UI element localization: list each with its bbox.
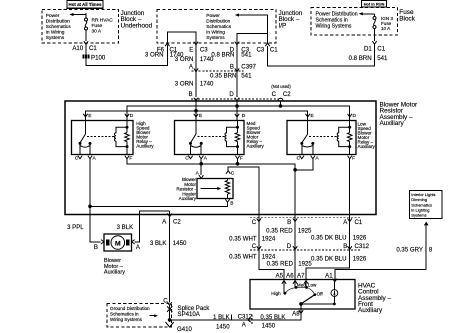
junction block underhood (dashed box): [42, 10, 119, 44]
svg-text:C2: C2: [173, 219, 181, 226]
wire label 0.35 GRY 8: [396, 246, 433, 253]
pin C relay K2: [185, 156, 192, 162]
svg-text:E: E: [189, 46, 193, 53]
svg-text:Distribution: Distribution: [46, 19, 70, 25]
svg-text:30 A: 30 A: [92, 28, 102, 34]
svg-text:0.8 BRN: 0.8 BRN: [211, 52, 234, 59]
svg-text:C1: C1: [270, 46, 278, 53]
svg-text:B: B: [343, 243, 347, 250]
svg-text:RR HVAC: RR HVAC: [92, 18, 114, 24]
svg-text:0.35 WHT: 0.35 WHT: [229, 254, 257, 261]
svg-text:Auxiliary: Auxiliary: [104, 270, 125, 276]
svg-text:M: M: [115, 240, 121, 247]
svg-text:Auxiliary: Auxiliary: [247, 144, 265, 149]
svg-text:C: C: [272, 91, 277, 98]
svg-text:B: B: [230, 200, 233, 206]
svg-text:B: B: [287, 219, 291, 226]
svg-text:C1: C1: [170, 46, 178, 53]
wire label 0.8 BRN 541: [349, 55, 388, 62]
svg-text:Block: Block: [399, 15, 415, 22]
svg-text:C397: C397: [241, 63, 256, 70]
svg-text:3 ORN: 3 ORN: [175, 81, 194, 88]
svg-text:1450: 1450: [173, 240, 187, 247]
pin A10 connector C1: [72, 41, 97, 52]
label: Junction Block - Underhood: [121, 10, 153, 29]
wire label 0.35 RED 1925 (lower): [267, 260, 313, 267]
svg-text:F: F: [129, 156, 132, 162]
wire label 0.35 WHT 1924 (lower): [229, 254, 276, 261]
svg-text:1 BLK: 1 BLK: [213, 314, 230, 321]
pin A relay K3: [311, 156, 320, 162]
label: Med Speed Blower Motor Relay - Auxiliary: [247, 121, 265, 149]
fuse F2 IGN 3 Fuse 10A: [373, 14, 393, 41]
wire: relay K3 F to connector C1 pin A then to HVAC A7: [306, 159, 350, 281]
svg-text:E: E: [199, 113, 202, 119]
svg-text:Schematics: Schematics: [206, 24, 231, 30]
svg-text:1450: 1450: [216, 323, 230, 330]
wire label 3 ORN 1740 (upper): [175, 56, 214, 63]
arrow from C3 bus to reference text: [235, 13, 268, 33]
inline connector C397 pin B: [230, 63, 257, 71]
svg-text:Underhood: Underhood: [121, 22, 153, 29]
svg-text:Auxiliary: Auxiliary: [358, 307, 383, 314]
svg-text:A6: A6: [286, 272, 294, 279]
svg-text:C1: C1: [355, 219, 363, 226]
lamp DS1 illumination: [331, 280, 338, 306]
pin C connector C312: [252, 243, 261, 250]
pin D of C2: [229, 91, 239, 101]
svg-text:High: High: [271, 291, 281, 296]
pin B motor: [94, 240, 104, 251]
svg-text:Wiring Systems: Wiring Systems: [316, 24, 352, 30]
junction block I/P (dashed box): [157, 10, 276, 44]
svg-text:C: C: [297, 156, 301, 162]
label: Low Speed Blower Motor Relay - Auxiliary: [358, 121, 376, 149]
svg-text:Auxiliary: Auxiliary: [179, 196, 197, 201]
svg-text:Schematics in: Schematics in: [110, 312, 139, 317]
svg-text:C: C: [252, 219, 257, 226]
wire label 0.35 WHT 1924 (upper): [229, 235, 276, 242]
pin A connector C1: [343, 218, 363, 225]
pin C relay K3: [297, 156, 304, 162]
wire: coil supply bus (D bus): [127, 106, 350, 121]
pin E relay K3: [306, 113, 314, 119]
svg-text:C: C: [75, 156, 79, 162]
flag: Hot at All Times: [67, 1, 103, 9]
junction: K3 A join: [293, 168, 297, 172]
svg-text:in Wiring: in Wiring: [46, 30, 65, 36]
svg-text:0.35 RED: 0.35 RED: [266, 227, 293, 234]
svg-text:A10: A10: [72, 45, 83, 52]
pin C connector C1: [252, 218, 261, 225]
svg-text:0.35 BLK: 0.35 BLK: [260, 314, 285, 321]
wire label 0.35 BRN 541: [210, 72, 252, 79]
svg-text:541: 541: [241, 52, 252, 59]
svg-text:0.35 DK BLU: 0.35 DK BLU: [311, 255, 347, 262]
connector C312 (dashed): [250, 249, 360, 251]
svg-text:A7: A7: [297, 272, 305, 279]
note: power distribution schematics reference: [316, 11, 358, 29]
svg-text:C3: C3: [200, 46, 208, 53]
pin B of C2: [189, 91, 199, 101]
wire: relay K2 A down to resistor pin A: [200, 159, 202, 175]
svg-text:Power Distribution: Power Distribution: [316, 11, 358, 17]
pin A relay K1: [88, 156, 97, 162]
svg-text:D: D: [287, 243, 292, 250]
motor M1 blower motor - auxiliary: [104, 234, 132, 251]
pin E relay K1: [83, 113, 91, 119]
junction: B entry on bus: [194, 109, 198, 113]
svg-text:B: B: [94, 244, 98, 251]
pin D connector C3: [230, 42, 250, 54]
svg-text:C3: C3: [257, 46, 265, 53]
svg-text:C: C: [252, 243, 257, 250]
svg-text:Auxiliary: Auxiliary: [358, 144, 376, 149]
wire: resistor pin B to motor feed: [90, 202, 228, 206]
interior lights dimming reference box: [410, 191, 443, 219]
svg-text:Systems: Systems: [46, 35, 65, 41]
connector C2 (dashed) on top edge: [191, 98, 278, 100]
svg-text:1926: 1926: [353, 235, 367, 242]
wire: internal bus C3 to D: [237, 34, 268, 44]
svg-text:Distribution: Distribution: [206, 18, 230, 24]
svg-text:D: D: [130, 113, 134, 119]
svg-text:C: C: [185, 156, 189, 162]
wire: relay K1 A down to blower motor (3 PPL): [90, 159, 101, 242]
splice pack SP410A: [167, 305, 210, 318]
pin A6 HVAC: [286, 272, 297, 284]
svg-text:3 PPL: 3 PPL: [67, 224, 84, 231]
svg-text:P100: P100: [91, 54, 106, 61]
svg-text:E: E: [311, 113, 314, 119]
svg-text:C1: C1: [89, 45, 97, 52]
ground distribution reference (dashed box): [107, 304, 172, 328]
wire: HVAC A8 to splice (0.35 BLK 1450): [170, 309, 301, 320]
svg-text:541: 541: [377, 55, 388, 62]
flag: Hot in RUN: [362, 1, 387, 8]
svg-text:D: D: [353, 113, 357, 119]
junction: resistor B branch: [88, 205, 92, 209]
wire: 0.8 BRN 541 from D1 to C3 of junction block: [268, 44, 375, 66]
wire label 0.8 BRN 541: [211, 52, 252, 59]
relay K3 low speed blower motor relay - auxiliary: [287, 121, 356, 155]
pin B connector C1: [287, 218, 297, 225]
junction: D entry on bus: [235, 104, 239, 108]
junction: K2 F on bus: [236, 162, 240, 166]
svg-text:I/P: I/P: [279, 22, 287, 29]
svg-text:Low: Low: [308, 283, 317, 288]
svg-text:B: B: [189, 91, 193, 98]
wire: internal bus F6 to E: [167, 32, 196, 43]
svg-text:0.35 DK BLU: 0.35 DK BLU: [311, 235, 347, 242]
pin D connector C312: [287, 243, 298, 250]
pin E connector C3: [189, 42, 208, 54]
svg-text:0.35 GRY: 0.35 GRY: [396, 246, 423, 253]
svg-text:1924: 1924: [262, 235, 276, 242]
pin B resistor: [225, 199, 233, 206]
note: power distribution schematics reference: [206, 13, 231, 41]
svg-text:Auxiliary: Auxiliary: [380, 120, 405, 127]
svg-text:E: E: [88, 113, 91, 119]
svg-text:Hot at All Times: Hot at All Times: [69, 2, 102, 7]
pin A1 HVAC: [325, 272, 337, 282]
svg-text:0.35 WHT: 0.35 WHT: [229, 235, 257, 242]
fuse block (dashed box): [311, 8, 398, 36]
wire label 1 BLK 1450: [213, 314, 232, 330]
wire label 3 BLK 1450: [150, 240, 187, 247]
wire label 0.35 DK BLU 1926 (upper): [311, 235, 367, 242]
svg-text:C312: C312: [238, 314, 253, 321]
note: power distribution schematics reference: [46, 13, 71, 41]
label: Fuse Block: [399, 9, 415, 22]
label: HVAC Control Assembly - Front Auxiliary: [358, 282, 391, 314]
relay K2 med speed blower motor relay - auxiliary: [175, 121, 245, 155]
wire: relay K3 A joins C1 pin B net: [295, 159, 313, 170]
wire: relay K1 F and K2 F to connector C1 pin B: [127, 159, 295, 281]
wire: D entry down to relay 2 pin D: [236, 101, 238, 121]
svg-text:1450: 1450: [262, 323, 276, 330]
arrow to reference text: [69, 13, 86, 16]
pin C above splice pack: [163, 297, 172, 305]
pin A motor: [132, 240, 141, 251]
pin A7 HVAC: [297, 272, 308, 284]
label: Blower Motor Resistor Assembly - Auxiliary: [380, 101, 419, 127]
pin C relay K1: [75, 156, 82, 162]
svg-text:Systems: Systems: [206, 35, 225, 41]
svg-text:A1: A1: [325, 272, 333, 279]
switch S1 blower speed: [271, 280, 323, 306]
svg-text:1740: 1740: [200, 81, 214, 88]
svg-text:1925: 1925: [298, 227, 312, 234]
svg-text:0.8 BRN: 0.8 BRN: [349, 55, 372, 62]
wire: 3 ORN from A10 to F6: [86, 44, 167, 65]
pin F relay K1: [125, 156, 133, 162]
svg-text:D1: D1: [364, 46, 372, 53]
svg-text:(Not used): (Not used): [271, 84, 291, 89]
svg-text:Med: Med: [297, 283, 306, 288]
svg-text:SP410A: SP410A: [178, 311, 201, 318]
blower motor resistor - heater auxiliary R1: [197, 179, 233, 199]
label: Junction Block - I/P: [279, 10, 303, 29]
pin A5 HVAC: [276, 272, 287, 284]
junction: K2 A on bus: [199, 162, 203, 166]
pin A connector C2: [162, 211, 181, 302]
svg-text:10 A: 10 A: [381, 26, 391, 31]
pin D relay K3: [348, 113, 357, 119]
label: Blower Motor - Auxiliary: [104, 258, 125, 275]
pin A relay K2: [199, 156, 208, 162]
svg-text:F6: F6: [157, 46, 165, 53]
wire: 0.35 GRY 8 to HVAC pin A1: [335, 225, 426, 281]
inline connector C397 pin A: [189, 63, 244, 71]
svg-text:Power: Power: [206, 13, 220, 19]
svg-text:Fuse: Fuse: [92, 23, 103, 29]
wire: resistor pin C to connector C1 pin C then to HVAC A5: [228, 167, 284, 281]
pin B connector C312: [343, 243, 369, 250]
connector C1 (dashed) bottom of main box: [250, 216, 360, 218]
pin C of C2 (not used): [271, 84, 291, 108]
svg-text:Auxiliary: Auxiliary: [136, 144, 154, 149]
pin F relay K3: [348, 156, 356, 162]
wire label 0.35 BLK 1450: [260, 314, 285, 330]
svg-text:F: F: [352, 156, 355, 162]
svg-text:C: C: [231, 171, 235, 177]
svg-text:A5: A5: [276, 272, 284, 279]
svg-text:Hot in RUN: Hot in RUN: [364, 1, 385, 6]
wire label 0.35 DK BLU 1926 (lower): [311, 255, 367, 262]
svg-text:3 BLK: 3 BLK: [150, 240, 167, 247]
pin D1 connector C1: [364, 41, 386, 53]
svg-text:C1: C1: [377, 46, 385, 53]
pin A8 HVAC: [292, 304, 303, 318]
label: Blower Motor Resistor - Heater Auxiliary: [176, 177, 196, 201]
pin C resistor: [226, 171, 235, 177]
svg-text:Ground Distribution: Ground Distribution: [110, 306, 150, 311]
svg-text:C312: C312: [355, 243, 370, 250]
wire: splice to ground: [169, 305, 171, 322]
wire: B entry down to relay 2 pin E: [195, 101, 197, 121]
relay K1 high speed blower motor relay - auxiliary: [72, 121, 134, 155]
wire: relay common bus (E bus): [86, 111, 308, 121]
svg-text:B: B: [230, 63, 234, 70]
svg-text:3 ORN: 3 ORN: [175, 56, 194, 63]
pin E relay K2: [194, 113, 202, 119]
HVAC control assembly - front auxiliary: [250, 280, 355, 310]
pin D relay K2: [235, 113, 246, 119]
svg-text:Systems: Systems: [411, 213, 426, 218]
svg-text:0.35 BRN: 0.35 BRN: [210, 72, 236, 79]
svg-text:F: F: [240, 156, 243, 162]
arrow to interior lights box: [424, 222, 429, 226]
svg-text:Off: Off: [317, 292, 324, 297]
wire label 0.35 RED 1925 (upper): [266, 227, 312, 234]
junction: ground return join: [168, 318, 172, 322]
pin D relay K1: [125, 113, 134, 119]
blower motor resistor assembly - auxiliary (main box): [65, 101, 376, 215]
pin A resistor (from relay K2 pin A): [196, 170, 204, 178]
svg-text:Wiring Systems: Wiring Systems: [110, 317, 143, 322]
label: High Speed Blower Motor Relay - Auxiliary: [136, 121, 154, 149]
svg-text:D: D: [242, 113, 246, 119]
svg-text:Schematics: Schematics: [46, 24, 71, 30]
pin F relay K2: [235, 156, 243, 162]
svg-text:D: D: [229, 91, 234, 98]
wire: lamp to switch common: [301, 303, 334, 305]
grommet P100: [82, 54, 106, 61]
svg-text:C2: C2: [283, 91, 291, 98]
svg-text:G410: G410: [177, 326, 193, 333]
svg-text:1926: 1926: [353, 255, 367, 262]
wire: motor A to connector C2 pin A (3 BLK): [134, 211, 169, 242]
svg-text:0.35 RED: 0.35 RED: [267, 260, 294, 267]
ground G410: [165, 322, 192, 333]
wire: 0.8 BRN 541 from D down to C397: [236, 45, 238, 97]
arrow to reference text: [359, 12, 375, 15]
fuse F1 RR HVAC Fuse 30A: [85, 13, 114, 41]
inline connector C312 pin A: [238, 314, 253, 329]
pin F6 connector C1: [157, 43, 178, 53]
svg-text:3 BLK: 3 BLK: [117, 224, 134, 231]
svg-text:Power: Power: [46, 13, 60, 19]
wire label 3 ORN 1740 (lower): [175, 81, 214, 88]
pin C3 connector C1: [257, 43, 279, 53]
wire label 3 ORN 1740: [145, 52, 184, 59]
wire: 3 ORN 1740 from E down to main box pin B: [195, 45, 197, 97]
svg-text:A8: A8: [292, 311, 300, 318]
wire: relay K2 F join: [237, 159, 239, 164]
svg-text:541: 541: [241, 72, 252, 79]
svg-text:in Wiring: in Wiring: [206, 29, 225, 35]
